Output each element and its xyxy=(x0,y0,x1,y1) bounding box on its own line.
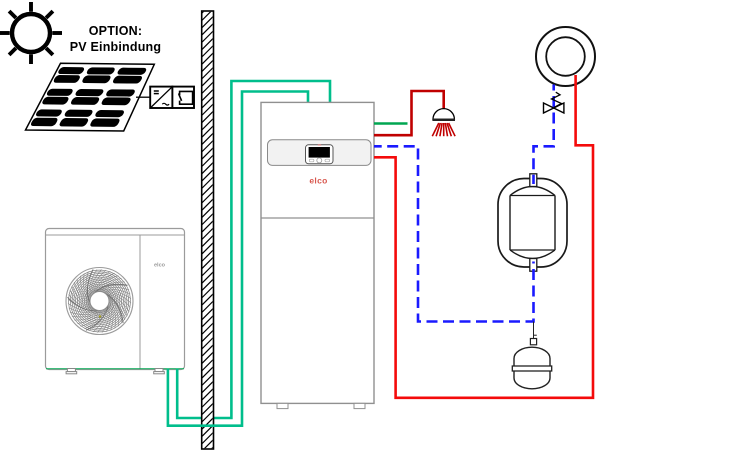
svg-text:OPTION:: OPTION: xyxy=(89,24,142,38)
svg-text:elco: elco xyxy=(309,176,327,186)
svg-text:PV Einbindung: PV Einbindung xyxy=(70,40,161,54)
svg-text:elco: elco xyxy=(154,263,166,269)
